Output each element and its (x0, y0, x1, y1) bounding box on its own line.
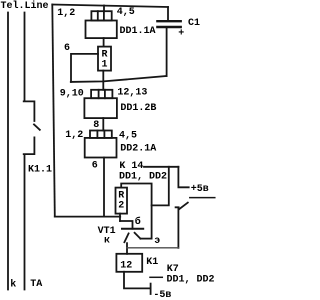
svg-text:к: к (104, 236, 110, 247)
-5v terminal tick (150, 284, 152, 294)
+5v rail stub under label (190, 197, 215, 199)
svg-text:1,2: 1,2 (57, 8, 75, 19)
wire: relay bottom to -5v (124, 272, 150, 289)
svg-text:12: 12 (120, 260, 132, 271)
gate DD1.1A input comb (91, 11, 111, 20)
svg-text:K1.1: K1.1 (28, 164, 52, 175)
wire: DD1.2B output pin 8 to DD2.1A comb (102, 118, 104, 130)
wire: C1 return + feedback bottom rail (slanted) (71, 76, 167, 82)
resistor R2 body (116, 188, 128, 214)
wire: K14 horizontal (144, 166, 178, 168)
svg-text:DD1, DD2: DD1, DD2 (167, 274, 215, 285)
svg-text:б: б (135, 215, 141, 228)
wire: emitter riser and bend to R2 top (121, 184, 151, 239)
svg-text:6: 6 (64, 43, 70, 54)
svg-text:8: 8 (93, 120, 99, 131)
svg-text:+: + (178, 29, 184, 40)
gate DD1.2B body (84, 98, 117, 118)
svg-text:-5в: -5в (153, 290, 171, 300)
wire: R1 bottom to DD1.2B comb (102, 71, 104, 90)
wire: top horizontal from Tel.Line to C1 (52, 5, 168, 8)
transistor VT1 emitter diagonal (135, 233, 141, 239)
wire: Tel.Line branch rail 3 (52, 5, 55, 217)
wire: rail 2 lower segment (24, 137, 35, 289)
wire: DD2.1A output pin 6 long vertical (103, 158, 105, 217)
svg-text:DD1.2B: DD1.2B (120, 103, 156, 114)
transistor VT1 base bar (122, 228, 143, 230)
svg-text:K1: K1 (146, 257, 158, 268)
resistor R1 body (98, 47, 111, 71)
transistor VT1 collector diagonal (124, 233, 128, 242)
gate DD2.1A body (85, 138, 117, 158)
capacitor C1 bottom lead (166, 28, 168, 76)
svg-text:1: 1 (102, 60, 108, 71)
wire: feedback loop left of R1 (71, 54, 98, 82)
wire: R2 bottom stub (119, 214, 121, 221)
svg-text:6: 6 (92, 160, 98, 171)
wire: collector lead down to relay (126, 243, 128, 254)
dash before lower DD1, DD2 (150, 276, 162, 278)
contact blade at +5v (179, 203, 188, 210)
svg-text:K7: K7 (167, 264, 179, 275)
wire: K14 bend to +5v (178, 167, 188, 188)
svg-text:2: 2 (118, 201, 124, 212)
wire: jog to transistor base (120, 221, 133, 229)
relay K1 coil box (116, 254, 142, 272)
wire: DD1.1A output pin 6 (103, 38, 105, 47)
svg-text:Tel.Line: Tel.Line (1, 0, 49, 12)
svg-text:+5в: +5в (191, 184, 209, 195)
wire: branch from riser to K14 drop (152, 167, 169, 206)
capacitor C1 top lead (167, 7, 169, 20)
gate DD2.1A input comb (90, 131, 112, 138)
svg-text:9,10: 9,10 (60, 88, 84, 99)
svg-text:1,2: 1,2 (65, 130, 83, 141)
svg-text:DD1, DD2: DD1, DD2 (119, 171, 167, 182)
wire: input lead down to DD1.1A comb (103, 6, 105, 12)
svg-text:DD1.1A: DD1.1A (120, 26, 156, 37)
contact K1.1 blade (34, 124, 40, 129)
svg-text:4,5: 4,5 (117, 7, 135, 18)
svg-text:C1: C1 (188, 18, 200, 29)
svg-text:4,5: 4,5 (119, 131, 137, 142)
svg-text:k: k (10, 279, 16, 291)
gate DD1.1A body (86, 21, 117, 39)
svg-text:DD2.1A: DD2.1A (120, 143, 156, 154)
svg-text:TA: TA (30, 279, 42, 290)
svg-text:э: э (154, 236, 160, 247)
wire: telephone line rail 1 (k) (7, 13, 9, 290)
wire: collector to contact horizontal (127, 247, 178, 249)
wire: contact hook and vertical to collector net (176, 207, 179, 248)
wire: base node horizontal (55, 216, 120, 218)
svg-text:12,13: 12,13 (117, 88, 147, 99)
capacitor C1 plates (157, 21, 180, 27)
wire: telephone line rail 2 (TA) upper segment (24, 13, 35, 122)
gate DD1.2B input comb (91, 90, 112, 98)
wire: emitter horizontal (140, 238, 151, 240)
